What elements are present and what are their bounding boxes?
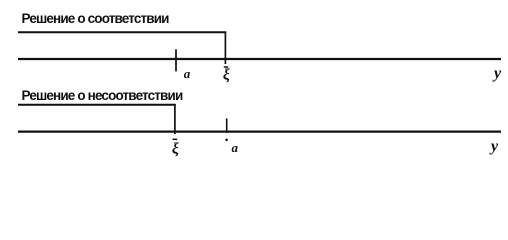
wire: rejection-region bracket vertical drop at xi-bar	[174, 104, 176, 134]
svg-text:Решение о несоответствии: Решение о несоответствии	[22, 88, 183, 103]
svg-text:Решение о соответствии: Решение о соответствии	[22, 11, 170, 26]
label xi-bar macron (upper axis)	[224, 66, 228, 68]
label xi-bar macron (lower axis)	[173, 138, 178, 140]
wire: acceptance-region bracket vertical drop at xi-bar	[224, 32, 226, 65]
node a: tick mark on upper axis	[175, 49, 177, 71]
svg-text:y: y	[492, 65, 502, 82]
node a: dashed tick mark on lower axis	[226, 118, 228, 132]
node a: dot below lower axis	[225, 139, 228, 142]
svg-text:ξ: ξ	[223, 66, 230, 83]
svg-text:y: y	[489, 138, 499, 155]
svg-text:a: a	[232, 140, 239, 155]
wire: rejection-region bracket horizontal line	[18, 104, 176, 106]
wire: acceptance-region bracket horizontal line	[18, 31, 226, 33]
svg-text:a: a	[184, 66, 191, 81]
wire: lower y-axis	[18, 131, 501, 133]
wire: upper y-axis	[18, 58, 501, 60]
svg-text:ξ: ξ	[172, 141, 179, 158]
